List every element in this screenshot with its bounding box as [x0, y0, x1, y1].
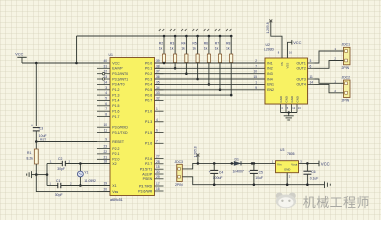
- wire X2 line right segment: [65, 163, 110, 165]
- wire C4 top lead: [213, 163, 215, 170]
- wire resistor R5 to bus line: [197, 63, 199, 80]
- junction R2 / line: [163, 62, 166, 65]
- svg-text:30pF: 30pF: [55, 193, 63, 197]
- svg-text:VCC: VCC: [112, 61, 120, 65]
- wire U1 pin 14 stub (P3.4/T0): [97, 83, 110, 85]
- wire U1 pin 6 stub (P1.5): [155, 132, 164, 134]
- svg-text:R8: R8: [226, 42, 230, 46]
- wire U1 pin 3 stub (P1.2): [97, 89, 110, 91]
- svg-text:OUT2: OUT2: [296, 67, 305, 71]
- wire OUT2 to JDC1 pin2: [315, 61, 344, 69]
- wire crystal top lead: [79, 164, 81, 172]
- diode D1 body: [234, 161, 241, 165]
- svg-text:37: 37: [156, 70, 160, 74]
- svg-text:28: 28: [156, 160, 160, 164]
- wire U2 pin 6 stub (OUT2): [308, 67, 315, 69]
- wire resistor R6 to bus line: [208, 63, 210, 85]
- svg-text:5: 5: [105, 96, 107, 100]
- capacitor C6 plates: [303, 171, 311, 174]
- svg-text:JDC1: JDC1: [342, 43, 351, 47]
- wire U2 ground stem: [288, 113, 290, 116]
- svg-text:P3.2/INT0: P3.2/INT0: [112, 72, 128, 76]
- svg-text:at89c51: at89c51: [110, 198, 123, 202]
- svg-text:P2.7: P2.7: [145, 162, 152, 166]
- svg-text:9: 9: [105, 138, 107, 142]
- svg-text:2PIN: 2PIN: [342, 66, 350, 70]
- svg-text:19: 19: [103, 182, 107, 186]
- ground (power rail, earth facing right): [325, 181, 331, 188]
- wire U1 pin 8 stub (P1.7): [97, 116, 110, 118]
- svg-text:EN1: EN1: [267, 83, 274, 87]
- junction X2 / crystal: [79, 162, 82, 165]
- svg-text:38: 38: [156, 64, 160, 68]
- wire U1 pin 39 stub (P0.0): [155, 62, 164, 64]
- wire resistor R7 to bus line: [219, 63, 221, 90]
- wire rail to resistor R3: [174, 36, 176, 54]
- no-ERC marks above R4: [181, 29, 186, 31]
- junction R4 / line: [185, 72, 188, 75]
- svg-text:R6: R6: [204, 42, 208, 46]
- junction U2 ground: [288, 111, 290, 113]
- svg-text:34: 34: [156, 86, 160, 90]
- svg-text:P0.5: P0.5: [145, 88, 152, 92]
- svg-text:VSS: VSS: [286, 63, 290, 69]
- wire U1 pin 16 stub (P3.6/WR): [155, 190, 164, 192]
- wire U1 pin 20 stub (Vss): [97, 191, 110, 193]
- junction C5 / rail2: [253, 183, 256, 186]
- svg-text:7: 7: [255, 64, 257, 68]
- svg-text:39: 39: [156, 59, 160, 63]
- svg-text:P1.5: P1.5: [112, 104, 119, 108]
- wire U3 Vout to VCC flag: [299, 162, 320, 164]
- junction crystal ground rail: [46, 173, 49, 176]
- svg-text:P2.2: P2.2: [112, 147, 119, 151]
- junction R3 / line: [174, 67, 177, 70]
- no-ERC marks above R8: [226, 29, 231, 31]
- svg-text:P3.1/TXD: P3.1/TXD: [112, 131, 128, 135]
- wire crystal bottom lead: [79, 177, 81, 186]
- wire U3 GND stem: [286, 173, 288, 185]
- wire C5 top lead: [253, 163, 255, 170]
- svg-text:P0.4: P0.4: [145, 83, 152, 87]
- junction rail / R2: [163, 35, 166, 38]
- wire U1 pin 6 stub (P1.5): [97, 105, 110, 107]
- svg-text:P3.6/WR: P3.6/WR: [138, 189, 152, 193]
- svg-text:Vss: Vss: [112, 190, 118, 194]
- junction R8 / line: [230, 94, 233, 97]
- wire U2 GND pin 2: [285, 104, 287, 113]
- svg-text:3: 3: [310, 59, 312, 63]
- resistor R2 body: [162, 54, 165, 63]
- svg-text:C6: C6: [311, 170, 315, 174]
- svg-text:P1.2: P1.2: [112, 88, 119, 92]
- svg-text:P1.6: P1.6: [145, 142, 152, 146]
- wire ground node down to Vss line: [36, 175, 110, 192]
- svg-text:JDC2: JDC2: [342, 75, 351, 79]
- svg-text:GND: GND: [295, 96, 299, 102]
- svg-text:OUT3: OUT3: [296, 77, 305, 81]
- junction reset node: [35, 140, 38, 143]
- svg-text:P3.3/INT1: P3.3/INT1: [112, 77, 128, 81]
- svg-text:32: 32: [156, 96, 160, 100]
- wire U1 pin 7 stub (P1.6): [155, 142, 164, 144]
- svg-text:1k: 1k: [170, 47, 174, 51]
- capacitor C1 plates: [58, 183, 61, 188]
- junction rail / R4: [185, 35, 188, 38]
- svg-text:P0.7: P0.7: [145, 99, 152, 103]
- wire C6 top lead: [306, 163, 308, 171]
- svg-text:GND: GND: [284, 168, 290, 172]
- wire VCC stem: [21, 57, 23, 63]
- wire U1 pin 1 stub (P1.0): [155, 110, 164, 112]
- svg-text:P0.3: P0.3: [145, 77, 152, 81]
- wire U1 pin 35 stub (P0.4): [155, 83, 164, 85]
- wire U2 VSS pin to VCC: [288, 42, 292, 58]
- wire U1 pin 37 stub (P0.2): [155, 73, 164, 75]
- svg-text:RESET: RESET: [112, 140, 125, 144]
- wire JDC3 pin2 to ground rail: [182, 177, 324, 185]
- resistor R8 body: [230, 54, 233, 63]
- capacitor C5 plates: [250, 170, 258, 173]
- svg-text:6: 6: [105, 102, 107, 106]
- wire resistor R2 to bus line: [163, 62, 165, 65]
- wire U1 pin 9 stub (RESET): [97, 141, 110, 143]
- svg-text:P3.4/T0: P3.4/T0: [112, 83, 124, 87]
- wire ground node to crystal ground rail: [36, 174, 47, 176]
- wire U1 pin 30 stub (ALE/P): [155, 173, 164, 175]
- wire reset node to R1: [35, 142, 37, 150]
- svg-text:R2: R2: [159, 42, 163, 46]
- wire bus line P0.6: [155, 94, 232, 96]
- svg-text:P1.6: P1.6: [112, 110, 119, 114]
- junction rail / R3: [174, 35, 177, 38]
- resistor R1 body: [34, 149, 38, 164]
- resistor R5 body: [196, 54, 199, 63]
- junction R7 / line: [219, 89, 222, 92]
- svg-text:VS: VS: [280, 62, 284, 66]
- connector JDC3 body: [177, 164, 183, 181]
- wire JDC3 pin1 to rail: [182, 163, 275, 169]
- svg-text:1: 1: [156, 107, 158, 111]
- wire reset node to U1 RESET: [36, 141, 97, 143]
- wire U1 pin 34 stub (P0.5): [155, 89, 164, 91]
- wire bus line P0.0: [155, 62, 266, 64]
- svg-text:11.0592: 11.0592: [84, 179, 96, 183]
- junction R5 / line: [196, 78, 199, 81]
- svg-text:2PIN: 2PIN: [175, 183, 183, 187]
- wire C5 bottom lead: [253, 173, 255, 184]
- ground (reset, earth facing left): [27, 171, 32, 178]
- wire U1 pin 4 stub (P1.3): [97, 94, 110, 96]
- svg-text:11: 11: [310, 75, 314, 79]
- wire OUT3 to JDC2 pin1: [315, 79, 344, 83]
- junction R6 / line: [208, 83, 211, 86]
- svg-text:2: 2: [255, 59, 257, 63]
- svg-text:P2.6: P2.6: [145, 157, 152, 161]
- svg-text:GND: GND: [290, 96, 294, 102]
- svg-text:P1.7: P1.7: [112, 115, 119, 119]
- wire rail to resistor R2: [163, 36, 165, 54]
- junction C5 / rail1: [253, 162, 256, 165]
- svg-text:3: 3: [105, 86, 107, 90]
- wire U2 VS pin to motor supply stub: [271, 22, 282, 59]
- junction U3 GND / rail2: [286, 183, 289, 186]
- wire U1 pin 33 stub (P0.6): [155, 94, 164, 96]
- svg-text:17: 17: [156, 182, 160, 186]
- junction D1 anode: [231, 162, 234, 165]
- svg-text:18: 18: [103, 160, 107, 164]
- junction C6 / vcc wire: [306, 162, 309, 165]
- wire U1 pin 23 stub (P2.2): [97, 148, 110, 150]
- svg-text:1k: 1k: [181, 47, 185, 51]
- inversion bubble on U1 pin 13: [102, 78, 104, 80]
- svg-text:27: 27: [156, 155, 160, 159]
- svg-text:U3: U3: [280, 148, 284, 152]
- wire U1 pin 38 stub (P0.1): [155, 67, 164, 69]
- svg-text:EN2: EN2: [267, 88, 274, 92]
- wire resistor R4 to bus line: [185, 63, 187, 74]
- wire bus line P0.2: [155, 73, 266, 75]
- svg-text:1.2V5.8: 1.2V5.8: [193, 146, 197, 157]
- svg-text:X2: X2: [112, 162, 116, 166]
- wire OUT1 to JDC1 pin1: [315, 51, 344, 63]
- svg-text:1k: 1k: [226, 47, 230, 51]
- wire C3 to reset node: [35, 131, 37, 142]
- wire U1 pin 31 stub (EA/VP): [97, 67, 110, 69]
- no-ERC marks above R5: [192, 29, 197, 31]
- svg-text:1k: 1k: [159, 47, 163, 51]
- svg-text:22: 22: [103, 150, 107, 154]
- wire bus line P0.3: [155, 78, 266, 80]
- capacitor C4 plates: [210, 170, 218, 173]
- svg-text:VCC: VCC: [15, 53, 23, 57]
- svg-text:40: 40: [103, 59, 107, 63]
- svg-text:+: +: [248, 170, 250, 174]
- svg-text:0.1uF: 0.1uF: [310, 176, 319, 180]
- wire U2 pin 14 stub (OUT4): [308, 83, 315, 85]
- svg-text:P1.4: P1.4: [112, 99, 119, 103]
- svg-text:35: 35: [156, 80, 160, 84]
- junction rail / R8: [230, 35, 233, 38]
- svg-text:P0.1: P0.1: [145, 67, 152, 71]
- watermark logo: [276, 192, 296, 208]
- op-amp U2 L293D body: [265, 58, 308, 104]
- wire X1 line left segment: [47, 185, 58, 187]
- junction R1 ground node: [35, 173, 38, 176]
- resistor R6 body: [207, 54, 210, 63]
- svg-text:C3: C3: [39, 126, 43, 130]
- junction at reset branch: [35, 62, 38, 65]
- svg-text:10: 10: [253, 70, 257, 74]
- wire U1 pin 7 stub (P1.6): [97, 110, 110, 112]
- wire rail to resistor R6: [208, 36, 210, 54]
- crystal Y1 body: [78, 171, 84, 177]
- svg-text:C5: C5: [259, 170, 263, 174]
- svg-text:9: 9: [255, 86, 257, 90]
- svg-text:2PIN: 2PIN: [342, 99, 350, 103]
- svg-text:IN1: IN1: [267, 61, 273, 65]
- wire U2 GND pin 3: [291, 104, 293, 113]
- svg-text:23: 23: [103, 145, 107, 149]
- op-amp U1 AT89C51 body: [110, 58, 155, 196]
- wire U1 pin 18 stub (X2): [97, 163, 110, 165]
- wire C6 bottom lead: [306, 174, 308, 185]
- wire X2 line left segment: [47, 163, 62, 165]
- svg-text:P3.7/RD: P3.7/RD: [139, 184, 153, 188]
- wire U1 pin 10 stub (P3.0/RXD): [97, 126, 110, 128]
- svg-text:R4: R4: [181, 42, 185, 46]
- wire U1 pin 17 stub (P3.7/RD): [155, 185, 164, 187]
- svg-text:30pF: 30pF: [57, 167, 65, 171]
- wire resistor R3 to bus line: [174, 63, 176, 69]
- svg-text:VCC: VCC: [293, 40, 301, 45]
- resistor R3 body: [174, 54, 177, 63]
- svg-text:机械工程师: 机械工程师: [303, 195, 370, 210]
- svg-text:31: 31: [103, 64, 107, 68]
- wire rail to resistor R4: [185, 36, 187, 54]
- wire rail to resistor R5: [197, 36, 199, 54]
- wire OUT4 to JDC2 pin2: [315, 84, 344, 92]
- svg-text:1k: 1k: [204, 47, 208, 51]
- svg-text:11: 11: [104, 129, 108, 133]
- svg-text:OUT1: OUT1: [296, 61, 305, 65]
- wire U2 ground bar: [281, 112, 298, 114]
- svg-text:PSEN: PSEN: [143, 177, 153, 181]
- wire rail to resistor R8: [230, 36, 232, 54]
- svg-text:29: 29: [156, 175, 160, 179]
- svg-text:P1.5: P1.5: [145, 131, 152, 135]
- svg-text:+: +: [209, 170, 211, 174]
- svg-text:1.2V5.8: 1.2V5.8: [266, 22, 270, 33]
- svg-text:6: 6: [310, 64, 312, 68]
- svg-text:Y1: Y1: [84, 170, 88, 174]
- svg-text:R7: R7: [215, 42, 219, 46]
- connector JDC1 body: [344, 47, 351, 65]
- capacitor C2 plates: [62, 161, 65, 166]
- svg-text:P0.6: P0.6: [145, 93, 152, 97]
- svg-text:ALE/P: ALE/P: [142, 172, 153, 176]
- wire R1 to ground node: [35, 164, 37, 175]
- svg-text:U1: U1: [109, 53, 113, 57]
- wire U1 pin 4 stub (P1.3): [155, 121, 164, 123]
- svg-text:6: 6: [156, 129, 158, 133]
- power symbol VCC bar at U2: [291, 40, 293, 45]
- svg-text:L293D: L293D: [264, 47, 275, 51]
- no-ERC marks above R7: [215, 29, 220, 31]
- svg-text:4: 4: [156, 118, 158, 122]
- svg-text:1k: 1k: [192, 47, 196, 51]
- svg-text:IN2: IN2: [267, 67, 273, 71]
- wire X1 line right segment: [61, 185, 110, 187]
- wire U1 pin 32 stub (P0.7): [155, 99, 164, 101]
- svg-text:P1.0: P1.0: [145, 110, 152, 114]
- svg-text:14: 14: [310, 80, 314, 84]
- svg-text:+: +: [31, 124, 33, 128]
- junction X1 / crystal: [79, 184, 82, 187]
- no-ERC marks above R2: [159, 29, 164, 31]
- wire bus line P0.4: [155, 83, 266, 85]
- junction C4 / rail2: [213, 183, 216, 186]
- wire ground node to ground symbol: [32, 174, 37, 176]
- svg-text:R3: R3: [170, 42, 174, 46]
- wire VCC rail to U1 pin 40: [22, 62, 110, 64]
- svg-text:20: 20: [103, 188, 107, 192]
- svg-text:R1: R1: [27, 151, 31, 155]
- svg-text:D1: D1: [235, 157, 239, 161]
- svg-text:P1.3: P1.3: [145, 120, 152, 124]
- svg-text:JDC3: JDC3: [175, 160, 184, 164]
- wire U1 pin 11 stub (P3.1/TXD): [97, 132, 110, 134]
- svg-text:P2.1: P2.1: [112, 152, 119, 156]
- svg-text:P3.0/RXD: P3.0/RXD: [112, 126, 128, 130]
- resistor R4 body: [185, 54, 188, 63]
- power symbol VCC bar (output): [318, 161, 320, 167]
- wire C4 bottom lead: [213, 173, 215, 184]
- svg-text:14: 14: [103, 80, 107, 84]
- power symbol VCC bar: [17, 56, 26, 58]
- svg-text:Vout: Vout: [291, 162, 297, 166]
- wire supply stub: [197, 156, 199, 164]
- svg-text:7: 7: [156, 139, 158, 143]
- inversion bubble on U1 pin 12: [102, 73, 104, 75]
- svg-text:1k: 1k: [215, 47, 219, 51]
- svg-text:IN4: IN4: [267, 77, 273, 81]
- no-ERC marks above R6: [204, 29, 209, 31]
- wire bus line P0.1: [155, 67, 266, 69]
- wire U1 pin 21 stub (P2.0): [97, 158, 110, 160]
- wire U1 pin 15 stub (P3.5/T1): [155, 168, 164, 170]
- no-ERC mark on supply stub: [196, 154, 199, 157]
- junction C4 / rail1: [213, 162, 216, 165]
- svg-text:X1: X1: [112, 184, 116, 188]
- capacitor C3 plates: [33, 128, 40, 131]
- wire U2 pin 11 stub (OUT3): [308, 78, 315, 80]
- svg-text:15: 15: [156, 165, 160, 169]
- svg-text:8: 8: [105, 113, 107, 117]
- wire VCC to C3: [35, 63, 37, 126]
- svg-text:R5: R5: [192, 42, 196, 46]
- wire U1 pin 19 stub (X1): [97, 185, 110, 187]
- svg-text:P0.2: P0.2: [145, 72, 152, 76]
- junction rail / R5: [196, 35, 199, 38]
- ground (U2): [284, 116, 294, 120]
- junction at pull-up branch: [75, 62, 78, 65]
- svg-text:10uF: 10uF: [255, 176, 263, 180]
- wire U1 pin 29 stub (PSEN): [155, 178, 164, 180]
- svg-text:1n4007: 1n4007: [233, 170, 244, 174]
- junction rail / R7: [219, 35, 222, 38]
- junction D1 cathode: [251, 162, 254, 165]
- regulator U3 7805 body: [276, 161, 299, 173]
- svg-text:GND: GND: [284, 96, 288, 102]
- svg-text:36: 36: [156, 75, 160, 79]
- svg-text:C2: C2: [58, 157, 62, 161]
- svg-text:OUT4: OUT4: [296, 83, 305, 87]
- svg-text:7805: 7805: [287, 152, 295, 156]
- junction rail / R6: [208, 35, 211, 38]
- wire U1 pin 13 stub (P3.3/INT1): [97, 78, 110, 80]
- wire riser to pull-up rail: [76, 36, 78, 63]
- wire U1 pin 36 stub (P0.3): [155, 78, 164, 80]
- svg-text:GND: GND: [279, 96, 283, 102]
- svg-text:P1.3: P1.3: [112, 93, 119, 97]
- svg-text:16: 16: [156, 187, 160, 191]
- connector JDC2 body: [344, 80, 351, 98]
- wire U1 pin 22 stub (P2.1): [97, 153, 110, 155]
- svg-text:C4: C4: [219, 170, 223, 174]
- svg-text:7: 7: [105, 107, 107, 111]
- wire U2 GND pin 1: [280, 104, 282, 113]
